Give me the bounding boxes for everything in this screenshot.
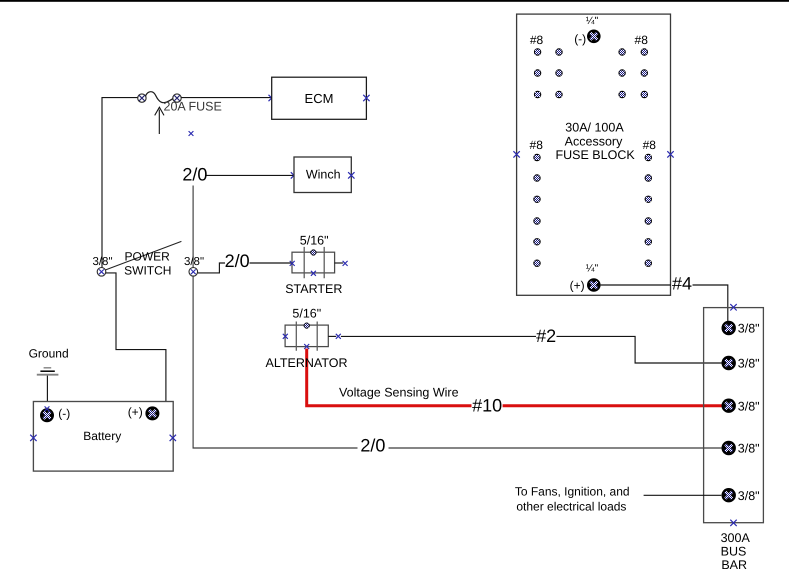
svg-text:5/16": 5/16" xyxy=(292,307,321,321)
svg-text:(+): (+) xyxy=(570,279,585,293)
bus bar terminal 4 3/8" xyxy=(722,441,760,456)
starter M1 xyxy=(290,247,348,278)
wire: power switch to battery positive xyxy=(106,273,166,401)
svg-text:20A FUSE: 20A FUSE xyxy=(164,100,222,114)
wire: to fans and loads xyxy=(644,494,722,496)
wire: 2/0 to bus bar xyxy=(193,276,722,448)
svg-text:3/8": 3/8" xyxy=(184,256,204,268)
bus bar terminal 1 3/8" xyxy=(722,321,760,336)
svg-text:3/8": 3/8" xyxy=(738,357,760,371)
wire: #2 alternator to bus bar xyxy=(341,336,722,363)
svg-text:Voltage Sensing Wire: Voltage Sensing Wire xyxy=(339,386,459,400)
svg-text:(-): (-) xyxy=(58,407,70,421)
svg-text:2/0: 2/0 xyxy=(225,251,250,271)
svg-text:(+): (+) xyxy=(128,405,143,419)
svg-text:other electrical loads: other electrical loads xyxy=(516,500,626,514)
svg-text:Battery: Battery xyxy=(83,429,121,443)
svg-text:30A/ 100A: 30A/ 100A xyxy=(565,121,624,135)
ground symbol xyxy=(37,368,59,410)
wire: #4 fuse block to bus bar xyxy=(601,285,728,322)
svg-text:(-): (-) xyxy=(574,32,586,46)
svg-text:POWER: POWER xyxy=(125,249,171,263)
svg-text:To Fans, Ignition, and: To Fans, Ignition, and xyxy=(515,485,630,499)
svg-text:#4: #4 xyxy=(672,273,692,293)
arrow pointer xyxy=(155,107,164,134)
svg-text:FUSE BLOCK: FUSE BLOCK xyxy=(556,148,636,162)
svg-text:#8: #8 xyxy=(530,33,544,47)
connection point fuse block left xyxy=(513,151,519,157)
power switch S1 xyxy=(97,241,197,276)
ECM box U1 xyxy=(272,77,370,119)
svg-text:¼": ¼" xyxy=(586,15,599,27)
fuse block terminal grid top right xyxy=(618,48,648,98)
label 300A BUS BAR xyxy=(721,531,751,572)
svg-text:2/0: 2/0 xyxy=(360,435,385,455)
label 30A/100A Accessory FUSE BLOCK xyxy=(556,121,636,162)
red voltage sensing wire #10 xyxy=(307,349,729,406)
svg-text:5/16": 5/16" xyxy=(300,234,329,248)
wire: power switch to starter xyxy=(198,263,292,273)
svg-text:Winch: Winch xyxy=(306,168,341,182)
fuse block terminal grid top left xyxy=(534,48,563,98)
winch box xyxy=(294,157,355,193)
svg-text:2/0: 2/0 xyxy=(182,165,207,185)
battery positive terminal xyxy=(128,405,160,421)
svg-text:BAR: BAR xyxy=(721,558,747,572)
wire: 2/0 to winch xyxy=(206,172,297,178)
svg-text:3/8": 3/8" xyxy=(92,256,112,268)
svg-text:3/8": 3/8" xyxy=(738,442,760,456)
wire: power switch to fuse xyxy=(102,98,138,268)
alternator G1 xyxy=(283,322,341,351)
fuse block positive terminal xyxy=(587,278,601,292)
battery B1 xyxy=(30,402,176,472)
svg-text:3/8": 3/8" xyxy=(738,322,760,336)
svg-text:#2: #2 xyxy=(536,326,556,346)
svg-text:Ground: Ground xyxy=(29,346,69,360)
svg-text:300A: 300A xyxy=(721,531,751,545)
connection point fuse block right xyxy=(667,151,673,157)
bus bar 300A xyxy=(704,304,764,526)
svg-text:ECM: ECM xyxy=(305,91,334,106)
bus bar terminal 2 3/8" xyxy=(722,356,760,371)
fuse block terminal column lower left xyxy=(533,154,540,267)
svg-text:#8: #8 xyxy=(635,33,649,47)
wire: fuse to ECM xyxy=(181,95,275,101)
svg-text:Accessory: Accessory xyxy=(565,134,623,148)
svg-text:STARTER: STARTER xyxy=(285,282,342,296)
svg-text:#8: #8 xyxy=(530,138,544,152)
svg-text:ALTERNATOR: ALTERNATOR xyxy=(266,356,348,370)
svg-text:¼": ¼" xyxy=(586,263,599,275)
connection point xyxy=(189,131,194,136)
svg-text:3/8": 3/8" xyxy=(738,399,760,413)
bus bar terminal 3 3/8" xyxy=(722,399,760,414)
bus bar terminal 5 3/8" xyxy=(722,488,760,503)
fuse F1 xyxy=(138,92,182,103)
wire: winch feed vertical xyxy=(192,186,194,268)
svg-text:#10: #10 xyxy=(472,395,502,415)
label To Fans, Ignition, and other electrical loads xyxy=(515,485,630,514)
battery negative terminal xyxy=(40,406,70,422)
fuse block negative terminal xyxy=(587,30,601,44)
label POWER SWITCH xyxy=(124,249,171,277)
svg-text:#8: #8 xyxy=(643,138,657,152)
fuse block terminal column lower right xyxy=(645,154,652,267)
svg-text:3/8": 3/8" xyxy=(738,489,760,503)
svg-text:BUS: BUS xyxy=(721,545,747,559)
svg-text:SWITCH: SWITCH xyxy=(124,263,171,277)
fuse block box xyxy=(517,14,671,295)
